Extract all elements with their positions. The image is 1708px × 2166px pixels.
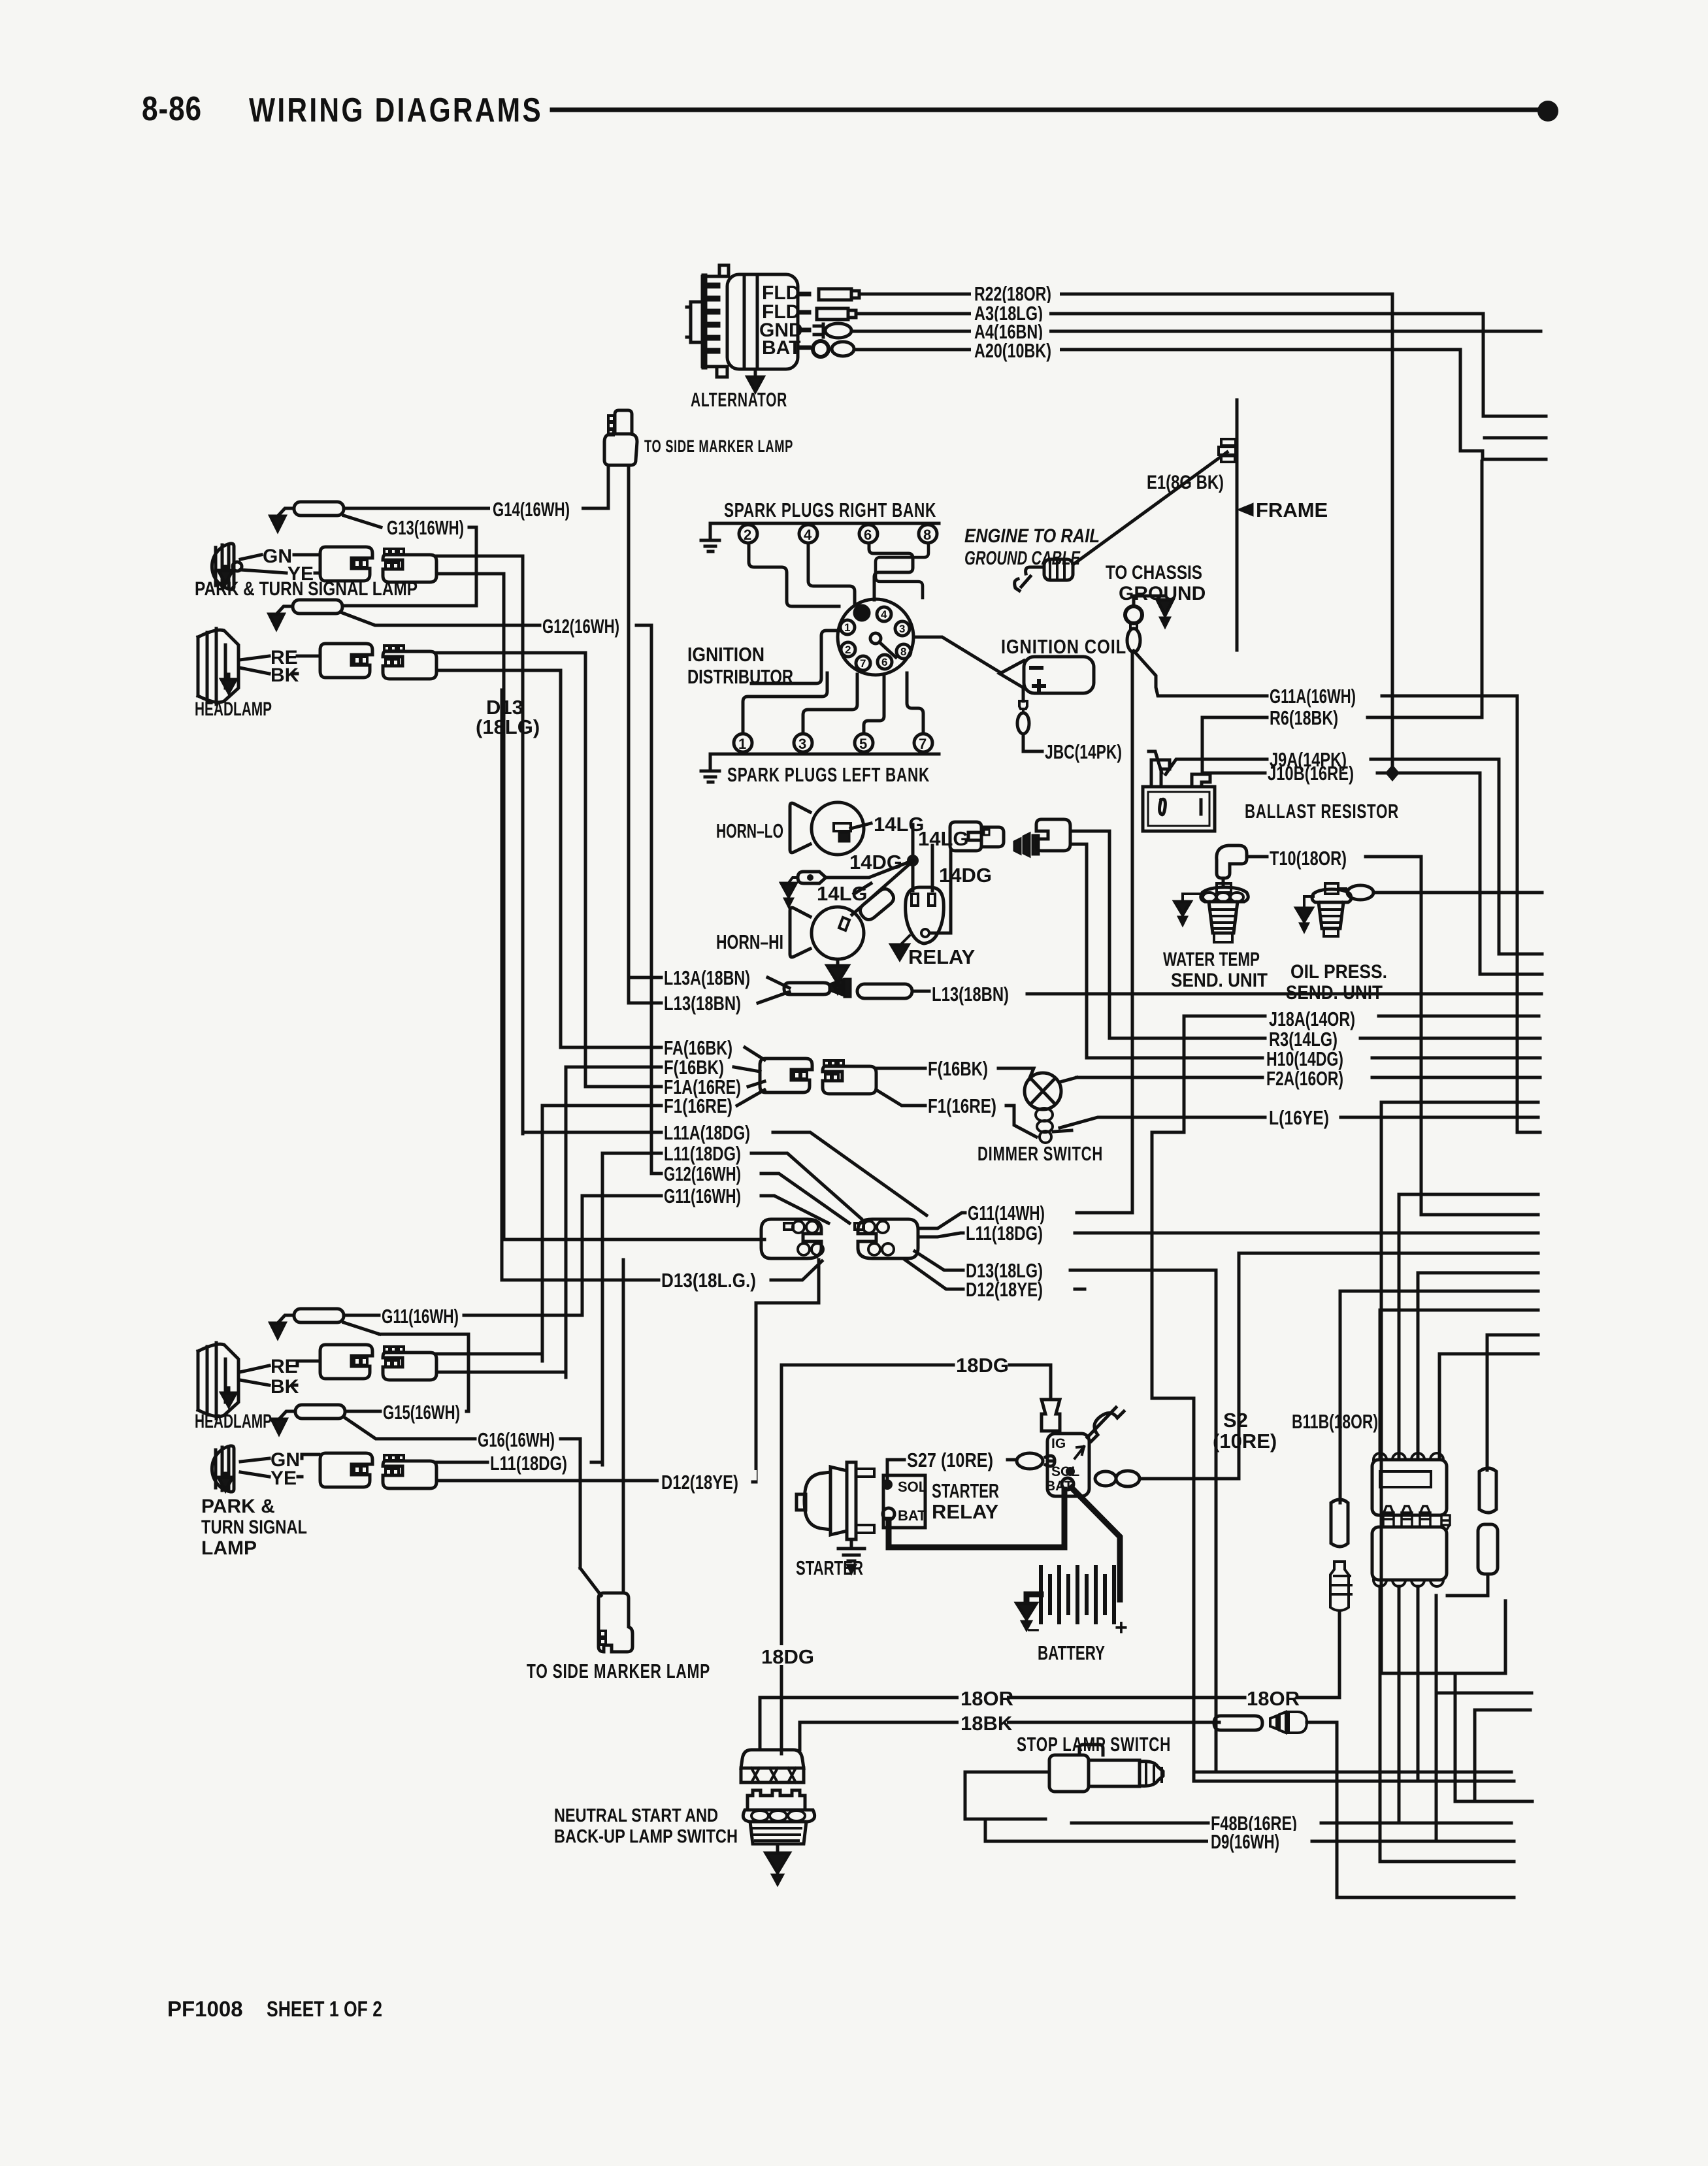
svg-text:WIRING DIAGRAMS: WIRING DIAGRAMS: [249, 91, 543, 129]
spark plug 7: [914, 734, 932, 752]
riser G11A right edge: [1517, 696, 1540, 1132]
label D9(16WH): [1208, 1831, 1313, 1852]
wire G16 diagonal to marker boot: [580, 1568, 601, 1596]
stop lamp switch body: [1049, 1745, 1163, 1792]
ignition switch body: [1047, 1434, 1089, 1496]
bottom lattice v 2304: [1504, 1601, 1507, 1673]
ignition switch connector top: [1042, 1400, 1060, 1431]
svg-text:TO SIDE MARKER LAMP: TO SIDE MARKER LAMP: [644, 436, 793, 456]
svg-text:4: 4: [881, 608, 887, 621]
bullet connector L13: [784, 983, 830, 994]
headlamp 2 ground arrow: [222, 1388, 236, 1406]
GN lead lamp1: [240, 555, 261, 559]
riser D13: [501, 690, 504, 1280]
wire D12 label right end: [1075, 1288, 1085, 1291]
engine to rail ground cable text: [964, 525, 1100, 569]
ignition switch IG dot: [1066, 1467, 1075, 1476]
label D13 (18LG) upper: [476, 696, 540, 738]
oil press ground: [1304, 896, 1313, 906]
splice capsule L13: [857, 984, 912, 998]
bottom lattice h-line 2757: [1455, 1800, 1532, 1803]
coil plus: [1034, 681, 1044, 691]
wire G15 label line: [345, 1410, 380, 1413]
wire R3: [1111, 1037, 1540, 1040]
svg-text:HEADLAMP: HEADLAMP: [195, 1411, 272, 1432]
PARK & TURN SIGNAL LAMP text 2: [201, 1496, 307, 1559]
right bank bus: [710, 522, 939, 525]
wire D9 right: [1312, 1840, 1514, 1843]
park lamp 1 ground arrow: [218, 566, 233, 583]
svg-text:6: 6: [881, 656, 887, 668]
svg-text:6: 6: [864, 527, 872, 543]
spark plug 8: [919, 525, 937, 543]
alternator body: [687, 265, 798, 377]
wire G11A from chassis chain: [1134, 651, 1267, 696]
RE lead lamp2: [240, 1366, 269, 1372]
wire stub mid-right extra: [1381, 1101, 1538, 1104]
svg-text:SPARK PLUGS LEFT BANK: SPARK PLUGS LEFT BANK: [727, 763, 930, 786]
svg-text:J18A(14OR): J18A(14OR): [1269, 1008, 1355, 1030]
wire 14LG junction riser: [911, 825, 915, 891]
plug lead 8: [876, 543, 928, 598]
svg-text:HORN–HI: HORN–HI: [716, 930, 783, 953]
distributor lower weave 5: [864, 676, 884, 734]
wire E1 diagonal: [1075, 452, 1227, 563]
BK lead lamp2: [240, 1380, 269, 1385]
battery heavy cable from relay: [889, 1490, 1064, 1547]
ignition switch fuse link diagonal: [1087, 1407, 1124, 1441]
wire 18BK right to riser: [1307, 1722, 1514, 1897]
G15 splice ground arrow: [272, 1419, 286, 1434]
svg-text:8-86: 8-86: [142, 90, 202, 128]
wire G11 splice bar: [380, 1333, 468, 1336]
wire 18OR line: [760, 1696, 1245, 1699]
horn relay body: [906, 887, 944, 944]
svg-text:PF1008: PF1008: [167, 1997, 243, 2021]
relay terminals: [911, 894, 935, 906]
dimmer switch knob: [1025, 1073, 1061, 1109]
alternator pulley ribs: [704, 276, 717, 367]
riser lower right: [1435, 1596, 1438, 1841]
svg-text:J10B(16RE): J10B(16RE): [1268, 762, 1354, 785]
horn ground bullet splice: [798, 872, 826, 883]
wire stub mid right: [1485, 436, 1546, 440]
wire G11 second stub: [582, 1194, 661, 1198]
label 18DG lower: [761, 1645, 804, 1665]
wire dimmer to F2A: [1060, 1077, 1077, 1082]
wire 14LG third pointer: [854, 883, 871, 894]
svg-text:BACK-UP LAMP SWITCH: BACK-UP LAMP SWITCH: [554, 1826, 738, 1847]
WATER TEMP SEND. UNIT text: [1163, 949, 1268, 991]
wire L11 lamp2 to riser: [591, 1462, 602, 1465]
battery heavy cable from ign BAT: [1072, 1488, 1120, 1600]
wire A20 vertical drop and right stub: [1460, 350, 1546, 459]
svg-text:TURN SIGNAL: TURN SIGNAL: [201, 1517, 307, 1538]
riser G11 down: [581, 1196, 584, 1315]
svg-text:14LG: 14LG: [918, 827, 969, 850]
bullet pair 18BK: [1214, 1716, 1262, 1730]
ignition distributor body: [838, 599, 913, 675]
right block riser 3: [1418, 1273, 1538, 1460]
svg-text:S2: S2: [1223, 1409, 1248, 1432]
STARTER RELAY text: [932, 1479, 999, 1523]
distributor lower weave 3: [803, 674, 857, 734]
svg-text:HEADLAMP: HEADLAMP: [195, 698, 272, 720]
label 18BK: [959, 1712, 1007, 1733]
G12 splice ground arrow: [269, 614, 284, 629]
wire YE lamp1 to riser: [436, 572, 504, 576]
wire 18OR to B11B riser: [1298, 1696, 1339, 1699]
relay ground: [900, 936, 910, 945]
park and turn signal lamp 1 symbol: [212, 544, 242, 589]
svg-text:7: 7: [919, 736, 927, 752]
wire A20(10BK) from alternator BAT: [854, 348, 1460, 352]
riser YE to bulkhead: [504, 574, 764, 1239]
svg-text:(10RE): (10RE): [1213, 1430, 1277, 1452]
wire G16 diagonal from G15: [345, 1418, 475, 1439]
svg-text:RE: RE: [271, 1356, 298, 1377]
wire G11 lower to riser: [464, 1314, 582, 1317]
wire GN lamp1 to riser: [436, 555, 523, 558]
alternator mount tabs: [717, 265, 729, 377]
svg-text:BATTERY: BATTERY: [1038, 1641, 1105, 1664]
headlamp 2 symbol: [198, 1343, 238, 1419]
svg-text:TO CHASSIS: TO CHASSIS: [1106, 562, 1202, 583]
wire ign to S2 riser: [1141, 1253, 1239, 1479]
bottom lattice v 2227: [1455, 1673, 1505, 1801]
wire R6 right: [1368, 461, 1482, 717]
distributor lower weave 7: [907, 673, 923, 734]
svg-text:SHEET 1 OF 2: SHEET 1 OF 2: [267, 1997, 382, 2021]
RE lead lamp: [240, 656, 269, 660]
wire D12 to riser: [753, 1481, 756, 1484]
wire D9 left riser: [984, 1819, 987, 1841]
label 14LG second riser: [931, 845, 934, 891]
svg-text:18DG: 18DG: [761, 1645, 814, 1668]
svg-text:TO SIDE MARKER LAMP: TO SIDE MARKER LAMP: [527, 1660, 710, 1682]
stop lamp switch left loop: [965, 1772, 1049, 1819]
frame vertical line: [1236, 400, 1239, 650]
svg-text:L(16YE): L(16YE): [1269, 1106, 1329, 1129]
horn connector second: [1036, 819, 1070, 851]
neutral switch ground: [776, 1844, 780, 1853]
wire BK1 to riser FA: [436, 670, 561, 1047]
horn hi symbol: [790, 907, 864, 959]
wire L from dimmer: [1060, 1117, 1265, 1128]
plug lead 6: [869, 543, 913, 600]
svg-text:3: 3: [899, 623, 905, 635]
lamp connector pair 4: [320, 1453, 436, 1488]
G12 splice capsule: [293, 600, 342, 614]
alternator terminal stubs: [800, 294, 809, 348]
side marker lamp boot (top): [604, 410, 637, 465]
coil minus: [1031, 666, 1042, 670]
distributor pin numbers: [844, 608, 906, 670]
svg-text:A20(10BK): A20(10BK): [974, 339, 1051, 362]
svg-text:BAT: BAT: [898, 1507, 927, 1524]
svg-text:B11B(18OR): B11B(18OR): [1292, 1410, 1378, 1433]
battery ground: [1017, 1603, 1036, 1619]
svg-text:ENGINE TO RAIL: ENGINE TO RAIL: [964, 525, 1100, 547]
side marker boot 2: [599, 1593, 632, 1652]
distributor lower weave 1: [743, 673, 827, 734]
wire J10B left to ballast: [1202, 772, 1265, 775]
svg-text:G13(16WH): G13(16WH): [387, 516, 464, 539]
wire 14DG to junction: [826, 861, 913, 878]
svg-text:3: 3: [798, 736, 806, 752]
B11B bullet top: [1331, 1500, 1348, 1547]
multi-pin connector lower: [1372, 1506, 1447, 1586]
coil bullet: [1019, 701, 1027, 713]
ignition switch BAT circle: [1062, 1478, 1074, 1490]
oil press bullet and wire: [1338, 887, 1346, 890]
wire S2 top: [1239, 1252, 1538, 1255]
bullet pair ign right: [1095, 1471, 1116, 1486]
OIL PRESS. SEND. UNIT text: [1286, 961, 1387, 1004]
svg-text:IGNITION COIL: IGNITION COIL: [1001, 635, 1126, 658]
wire dimmer to L: [1053, 1130, 1072, 1132]
wire GN2 to L11 label: [436, 1461, 487, 1464]
water temp send unit: [1201, 883, 1249, 942]
wire 18OR left elbow: [759, 1698, 762, 1750]
wire G13(16WH) diagonal from splice: [344, 516, 381, 527]
wire F right branch: [876, 1067, 925, 1070]
chassis bullet: [1127, 629, 1140, 652]
svg-text:OIL PRESS.: OIL PRESS.: [1290, 961, 1387, 983]
svg-text:G11(16WH): G11(16WH): [382, 1305, 459, 1328]
svg-text:G12(16WH): G12(16WH): [664, 1162, 741, 1185]
wire L13A to bullet: [768, 977, 789, 988]
riser chassis to G11 wire: [1131, 652, 1134, 1213]
svg-text:WATER TEMP: WATER TEMP: [1163, 949, 1260, 970]
svg-text:14LG: 14LG: [874, 813, 925, 836]
svg-text:18OR: 18OR: [961, 1687, 1013, 1710]
svg-text:S27 (10RE): S27 (10RE): [907, 1449, 993, 1471]
FLD connector 2: [817, 308, 856, 320]
svg-text:D13(18L.G.): D13(18L.G.): [661, 1269, 756, 1292]
junction dot R22-J10B: [1385, 764, 1400, 781]
svg-text:YE: YE: [271, 1468, 297, 1489]
label D12(18YE) lamp2: [659, 1470, 757, 1491]
wire B11B: [1340, 1291, 1538, 1503]
neutral switch connector cap: [741, 1750, 804, 1782]
svg-text:BAT: BAT: [762, 337, 800, 359]
water temp ground: [1183, 894, 1202, 902]
lamp connector pair 3: [320, 1345, 436, 1380]
svg-text:G16(16WH): G16(16WH): [478, 1428, 555, 1451]
wire J18A: [1184, 1015, 1539, 1018]
bulkhead connector left: [761, 1219, 823, 1258]
relay BAT terminal: [883, 1508, 895, 1520]
svg-text:F1(16RE): F1(16RE): [928, 1094, 996, 1117]
headlamp1 lead wires: [293, 656, 319, 674]
capsule right column: [1478, 1524, 1498, 1574]
svg-text:L11(18DG): L11(18DG): [490, 1452, 567, 1475]
riser F to headlamp2 BK: [565, 1067, 568, 1377]
wire stub extra 1687: [1464, 1101, 1538, 1104]
wire JBC to ballast: [1149, 751, 1162, 773]
oil press send unit: [1312, 883, 1351, 936]
battery negative cable: [1026, 1594, 1041, 1603]
G15 splice capsule: [295, 1405, 345, 1419]
horn connector pair: [950, 822, 1004, 851]
FRAME arrow: [1241, 505, 1252, 514]
bottom lattice h-line 2712: [1197, 1771, 1511, 1774]
junction dot 14LG/14DG: [907, 855, 919, 866]
svg-text:JBC(14PK): JBC(14PK): [1045, 740, 1122, 763]
wire F48B right: [1321, 1822, 1511, 1825]
T10 elbow boot: [1217, 845, 1247, 878]
wire L11 stub: [602, 1152, 661, 1155]
bottom lattice h-line 2849: [1380, 1860, 1514, 1863]
ignition switch arrow: [1075, 1447, 1084, 1458]
G11 splice capsule lower: [294, 1309, 344, 1322]
svg-text:L11A(18DG): L11A(18DG): [664, 1121, 750, 1144]
svg-text:G15(16WH): G15(16WH): [383, 1401, 460, 1424]
wire G12 right: [761, 1173, 849, 1223]
svg-text:D12(18YE): D12(18YE): [661, 1471, 738, 1494]
wire from marker boot left pin down to G14: [607, 465, 610, 508]
svg-text:LAMP: LAMP: [201, 1537, 257, 1559]
ballast resistor terminal right: [1192, 774, 1210, 787]
wire JBC from coil: [1023, 734, 1042, 751]
headlamp2 lead wires: [293, 1361, 319, 1385]
plug lead 2: [749, 543, 839, 606]
G14 splice ground arrow: [271, 516, 285, 531]
wire D9 line: [985, 1840, 1208, 1843]
spark plug 1: [734, 734, 752, 752]
spark plug 4: [799, 525, 817, 543]
wire D13 right to bulkhead: [771, 1261, 822, 1280]
svg-text:1: 1: [844, 621, 850, 634]
svg-text:14DG: 14DG: [939, 864, 992, 887]
svg-text:STARTER: STARTER: [796, 1556, 863, 1579]
wire L13A stub: [629, 976, 661, 979]
wire FA to connector: [745, 1047, 764, 1060]
svg-text:IGNITION: IGNITION: [687, 643, 764, 666]
GND ring terminal: [814, 324, 823, 337]
label R22(18OR): [971, 282, 1060, 303]
park lamp 1 wire YE to connector: [315, 572, 319, 575]
wire L13 right: [912, 990, 929, 993]
tall bullet right column: [1479, 1468, 1496, 1513]
wire S27 right to bullets: [1008, 1458, 1017, 1462]
horn hi diagonal with fuse link: [852, 861, 913, 915]
wire D13 right: [1070, 1270, 1216, 1772]
svg-text:G14(16WH): G14(16WH): [493, 498, 570, 521]
distributor left stub: [751, 631, 840, 683]
wire L right: [1341, 1116, 1538, 1119]
ballast resistor terminal left: [1151, 760, 1170, 787]
multi-pin connector upper: [1372, 1453, 1450, 1531]
wire T10 right: [1248, 857, 1538, 1215]
svg-text:D9(16WH): D9(16WH): [1211, 1830, 1279, 1853]
G15 splice ground lead: [279, 1411, 295, 1419]
GN lead lamp2: [240, 1458, 269, 1462]
wire B11B to 18OR: [1338, 1613, 1341, 1698]
label 18OR left: [959, 1687, 1007, 1708]
right block riser 2: [1399, 1194, 1538, 1460]
distributor right stub to coil: [913, 637, 1001, 673]
wire G16 to riser: [561, 1439, 580, 1568]
headlamp 1 symbol: [198, 629, 238, 704]
right block lower risers: [1379, 1586, 1382, 1862]
wire F1 to connector: [737, 1090, 764, 1106]
wire F48B line: [1072, 1822, 1208, 1825]
BK lead lamp: [240, 668, 269, 674]
wire bulkhead to D12(18YE) right: [905, 1260, 963, 1289]
svg-text:8: 8: [900, 646, 906, 658]
riser F1 to headlamp2 RE: [541, 1106, 544, 1361]
svg-text:BAT: BAT: [1045, 1479, 1073, 1494]
water temp boot link: [1222, 878, 1225, 885]
riser extra down: [1381, 1102, 1505, 1673]
battery plates: [1041, 1567, 1114, 1622]
alternator ground lead: [754, 369, 757, 382]
wire RE1 to riser F1A: [436, 653, 585, 1087]
park lamp 2 ground arrow: [218, 1473, 233, 1490]
svg-text:FRAME: FRAME: [1256, 499, 1328, 521]
left bank bus: [710, 753, 939, 756]
wire 14DG relay riser: [930, 851, 951, 933]
wire bulkhead to L11(18DG) right: [918, 1233, 963, 1237]
svg-text:G12(16WH): G12(16WH): [542, 615, 619, 638]
wire G14(16WH): [344, 507, 608, 510]
wire YE2 D12 line: [436, 1479, 657, 1483]
svg-text:HORN–LO: HORN–LO: [716, 819, 783, 842]
svg-text:STARTER: STARTER: [932, 1479, 999, 1502]
svg-text:DIMMER SWITCH: DIMMER SWITCH: [977, 1142, 1103, 1165]
svg-text:F2A(16OR): F2A(16OR): [1266, 1067, 1343, 1090]
label A20(10BK): [971, 340, 1060, 360]
svg-text:YE: YE: [287, 563, 314, 585]
neutral start and backup switch body: [743, 1790, 814, 1844]
title rule line: [552, 108, 1537, 112]
wire L11 right long: [1075, 1232, 1538, 1235]
wire G12(16WH) diagonal: [342, 613, 540, 625]
BAT ring terminal: [813, 341, 829, 357]
starter relay box: [883, 1475, 925, 1528]
G11 splice ground lead: [278, 1315, 294, 1323]
svg-text:L13(18BN): L13(18BN): [664, 992, 741, 1015]
spark plug 2: [739, 525, 757, 543]
bullet pair S27: [1017, 1453, 1043, 1469]
wire L11A right: [773, 1132, 927, 1215]
wire BK2 to riser: [436, 1372, 566, 1377]
left bank ground: [701, 754, 719, 782]
wire F1A to connector: [748, 1081, 764, 1087]
G14 splice ground lead: [278, 508, 294, 516]
G14 splice capsule: [294, 502, 344, 516]
svg-text:L13(18BN): L13(18BN): [932, 983, 1009, 1006]
svg-text:8: 8: [923, 527, 931, 543]
svg-text:2: 2: [744, 527, 751, 543]
riser marker boot 2: [622, 1260, 625, 1593]
svg-text:G11A(16WH): G11A(16WH): [1270, 685, 1356, 708]
wire R22 vertical drop: [1391, 294, 1394, 773]
YE lead lamp1: [240, 570, 286, 573]
svg-text:D12(18YE): D12(18YE): [966, 1278, 1043, 1301]
park lamp 2 lead wires: [298, 1454, 319, 1477]
label A4(16BN): [971, 321, 1049, 341]
coil lead down: [1022, 688, 1025, 701]
wire J9A left to ballast: [1166, 759, 1267, 774]
wire G12 to riser: [636, 625, 651, 1173]
wire RE2 to riser: [436, 1354, 542, 1361]
label S2 (10RE): [1213, 1409, 1277, 1452]
horn lo symbol: [790, 802, 864, 855]
ignition coil nose: [1000, 661, 1024, 688]
